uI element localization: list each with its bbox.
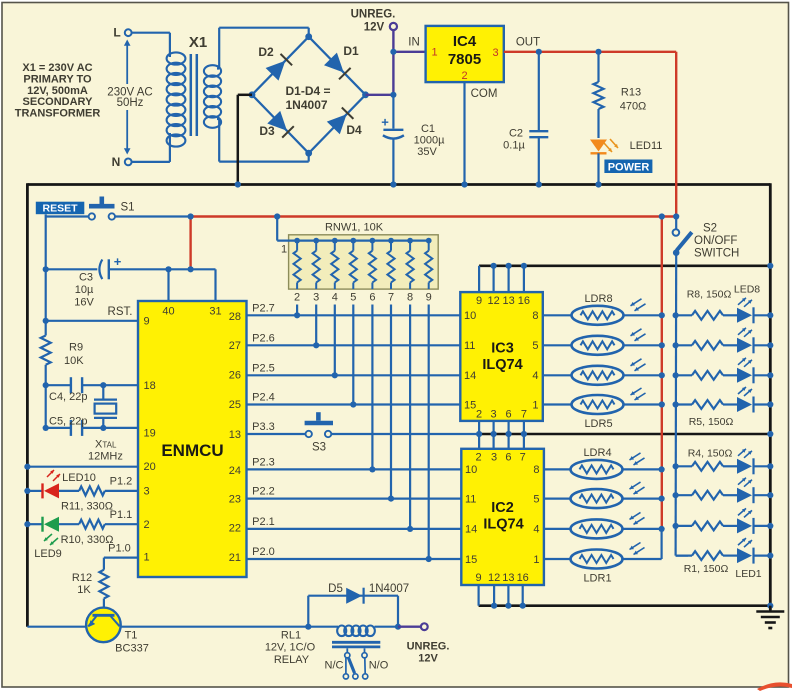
transistor T1 BC337 (103, 599, 105, 608)
S2 output rail down (674, 253, 677, 556)
svg-text:+: + (114, 254, 122, 269)
crystal XTAL 12MHz (102, 385, 104, 399)
RNW1 pin drop wires to ports (296, 305, 298, 316)
svg-text:OUT: OUT (516, 36, 540, 48)
RNW1 pin 1 entry wire (276, 217, 278, 241)
svg-text:50Hz: 50Hz (117, 97, 144, 109)
svg-text:2: 2 (476, 452, 482, 464)
svg-text:R12: R12 (72, 572, 92, 584)
S2 rail bend to R1 row (676, 554, 688, 556)
resistor R12 (99, 570, 108, 599)
svg-text:P2.1: P2.1 (252, 516, 275, 528)
svg-text:P3.3: P3.3 (252, 421, 275, 433)
svg-text:5: 5 (532, 340, 538, 352)
resistor R11 (59, 490, 79, 492)
svg-text:C3: C3 (79, 272, 93, 284)
LDR7 (543, 344, 572, 346)
relay contacts N/C N/O (346, 648, 348, 652)
svg-text:P2.4: P2.4 (252, 392, 275, 404)
svg-text:1000µ: 1000µ (414, 135, 445, 147)
svg-text:P1.0: P1.0 (108, 543, 131, 555)
svg-text:8: 8 (532, 310, 538, 322)
transformer X1 core (190, 54, 193, 136)
svg-text:LDR1: LDR1 (583, 573, 611, 585)
svg-text:11: 11 (464, 340, 475, 352)
svg-text:4: 4 (533, 524, 539, 536)
svg-text:6: 6 (506, 408, 512, 420)
LDR4 (544, 468, 571, 470)
ground bus frame left edge (26, 183, 29, 627)
wire P2.5 (247, 374, 461, 376)
svg-text:16: 16 (518, 295, 530, 307)
svg-text:LED8: LED8 (734, 284, 760, 296)
wire S3 to ground line (331, 433, 477, 435)
capacitor C3 (46, 268, 98, 270)
svg-text:R5, 150Ω: R5, 150Ω (689, 416, 734, 428)
svg-text:13: 13 (502, 295, 514, 307)
svg-text:12V, 1C/O: 12V, 1C/O (265, 642, 316, 654)
red 5V rail down right side (661, 217, 663, 530)
wire L to primary (132, 32, 170, 34)
capacitor C2 (536, 49, 542, 55)
mid ground line S3 to frame (477, 433, 770, 436)
svg-text:5: 5 (350, 292, 356, 304)
diode D5 (307, 596, 309, 627)
svg-text:IC4: IC4 (453, 33, 477, 50)
wire frame to T1 emitter (27, 626, 86, 628)
resistor network RNW1 box (289, 235, 439, 289)
svg-text:P2.0: P2.0 (252, 546, 275, 558)
svg-text:IC3: IC3 (491, 341, 514, 357)
svg-text:P2.5: P2.5 (252, 362, 275, 374)
svg-text:RELAY: RELAY (274, 654, 310, 666)
svg-text:L: L (113, 26, 120, 40)
resistor R5 and LED5 row (676, 403, 692, 405)
svg-text:12V, 500mA: 12V, 500mA (27, 85, 88, 97)
svg-text:12: 12 (487, 295, 499, 307)
resistor R7 and LED7 row (676, 344, 692, 346)
svg-text:15: 15 (464, 399, 476, 411)
svg-text:10µ: 10µ (75, 284, 94, 296)
svg-text:1: 1 (431, 47, 437, 59)
wire node down to C1 (392, 95, 394, 129)
svg-text:23: 23 (229, 494, 241, 506)
svg-text:S3: S3 (312, 442, 326, 454)
svg-text:P2.7: P2.7 (252, 302, 275, 314)
svg-text:9: 9 (144, 316, 150, 328)
capacitor C4 (46, 384, 71, 386)
svg-text:9: 9 (426, 292, 432, 304)
svg-text:C2: C2 (509, 128, 523, 140)
transformer X1 secondary winding (204, 65, 221, 77)
IC3 top pin stubs (478, 266, 480, 292)
svg-text:ILQ74: ILQ74 (483, 517, 523, 533)
resistor R8 and LED8 row (676, 314, 692, 316)
resistor R2 and LED2 row (676, 525, 692, 527)
push switch S3 (306, 431, 312, 437)
svg-text:6: 6 (505, 452, 511, 464)
svg-text:R8, 150Ω: R8, 150Ω (687, 288, 732, 300)
microcontroller U1 ENMCU (138, 301, 247, 577)
svg-text:35V: 35V (417, 146, 437, 158)
svg-text:ON/OFF: ON/OFF (694, 235, 737, 247)
svg-text:15: 15 (465, 554, 477, 566)
svg-text:7: 7 (388, 292, 394, 304)
capacitor C5 (45, 385, 47, 428)
svg-text:T1: T1 (125, 630, 138, 642)
svg-text:TRANSFORMER: TRANSFORMER (15, 108, 101, 120)
svg-text:R1, 150Ω: R1, 150Ω (684, 563, 729, 575)
bridge diamond wires (252, 37, 309, 95)
push switch S1 (89, 213, 95, 219)
resistor R9 (41, 336, 51, 365)
svg-text:3: 3 (491, 452, 497, 464)
svg-text:470Ω: 470Ω (620, 101, 647, 113)
wire MCU pin1 P1.0 to R12 (104, 556, 138, 558)
svg-text:24: 24 (229, 465, 241, 477)
svg-text:LDR5: LDR5 (584, 418, 612, 430)
svg-text:XTAL: XTAL (95, 439, 117, 451)
IC3-IC2 interconnect stubs (478, 421, 480, 449)
bridge node dots (305, 33, 312, 40)
IC2 bottom pin stubs (478, 585, 480, 606)
LDR1 (544, 558, 571, 560)
svg-text:LED11: LED11 (630, 140, 663, 152)
wire secondary top to bridge (217, 67, 219, 69)
switch S2 ON/OFF (673, 213, 679, 219)
svg-text:9: 9 (476, 295, 482, 307)
svg-text:7: 7 (521, 408, 527, 420)
svg-text:14: 14 (464, 370, 476, 382)
svg-text:1: 1 (144, 552, 150, 564)
svg-text:20: 20 (144, 461, 156, 473)
wire P2.6 (247, 344, 461, 346)
red wire vcc rail to S2 (191, 215, 677, 217)
svg-text:1: 1 (281, 244, 287, 256)
svg-text:BC337: BC337 (115, 643, 149, 655)
regulator IC4 7805 (426, 26, 504, 82)
svg-text:R9: R9 (69, 342, 83, 354)
svg-text:COM: COM (471, 88, 498, 100)
svg-text:ENMCU: ENMCU (161, 441, 223, 460)
wire N to primary (132, 161, 170, 163)
svg-text:7: 7 (520, 452, 526, 464)
svg-text:3: 3 (144, 486, 150, 498)
svg-text:6: 6 (369, 292, 375, 304)
svg-text:2: 2 (461, 70, 467, 82)
mains span arrow (126, 44, 128, 84)
svg-text:18: 18 (144, 380, 156, 392)
svg-text:C5, 22p: C5, 22p (49, 416, 88, 428)
wire P2.2 (247, 498, 462, 500)
svg-text:3: 3 (492, 47, 498, 59)
svg-text:12: 12 (488, 572, 500, 584)
svg-text:12V: 12V (364, 22, 385, 34)
wire MCU pin 20 to ground frame (27, 466, 138, 468)
svg-text:8: 8 (533, 464, 539, 476)
svg-text:R10, 330Ω: R10, 330Ω (61, 534, 114, 546)
svg-text:22: 22 (229, 523, 241, 535)
svg-text:UNREG.: UNREG. (407, 641, 450, 653)
svg-text:21: 21 (229, 552, 241, 564)
svg-text:12V: 12V (418, 653, 438, 665)
svg-text:13: 13 (229, 429, 241, 441)
svg-text:LDR8: LDR8 (584, 293, 612, 305)
LED9 green (27, 523, 42, 525)
svg-text:LED9: LED9 (34, 548, 62, 560)
label RESET tag (36, 202, 85, 215)
resistor R3 and LED3 row (676, 494, 692, 496)
svg-text:40: 40 (162, 306, 174, 318)
LDR3 (544, 498, 571, 500)
svg-text:X1: X1 (189, 34, 207, 51)
optocoupler IC3 ILQ74 (460, 292, 543, 421)
wire bridge plus to node (purple) (366, 94, 394, 96)
svg-text:X1 = 230V AC: X1 = 230V AC (22, 62, 92, 74)
svg-text:N/C: N/C (325, 659, 344, 671)
svg-text:10: 10 (465, 464, 477, 476)
svg-text:19: 19 (144, 428, 156, 440)
svg-text:C1: C1 (421, 123, 435, 135)
diode D2 (266, 61, 286, 81)
red wire vcc drop to MCU supply (189, 217, 191, 270)
svg-text:P2.3: P2.3 (252, 456, 275, 468)
diode D3 (267, 111, 287, 131)
wire S1 to vcc junction (115, 215, 191, 217)
svg-text:27: 27 (229, 340, 241, 352)
svg-text:D4: D4 (346, 123, 362, 137)
wire T1 collector to relay (121, 626, 309, 628)
svg-text:IN: IN (408, 36, 420, 48)
svg-text:D2: D2 (258, 45, 274, 59)
resistor R4 and LED4 row (676, 465, 692, 467)
diode D4 (327, 114, 347, 134)
svg-text:9: 9 (476, 572, 482, 584)
ground bus frame right edge (769, 183, 772, 610)
LDR8 (543, 314, 572, 316)
svg-text:POWER: POWER (608, 161, 650, 173)
svg-text:N: N (112, 155, 121, 169)
svg-text:C4, 22p: C4, 22p (49, 391, 88, 403)
svg-text:10K: 10K (64, 355, 84, 367)
ground bus frame top edge (27, 183, 770, 186)
wire secondary bottom to bridge (217, 118, 219, 120)
RNW1 resistors (294, 238, 300, 244)
svg-text:1: 1 (533, 554, 539, 566)
wire node to IC4 IN (purple) (393, 51, 425, 53)
svg-text:1N4007: 1N4007 (369, 583, 409, 595)
svg-text:P2.2: P2.2 (252, 486, 275, 498)
svg-text:IC2: IC2 (491, 500, 514, 516)
svg-text:26: 26 (229, 370, 241, 382)
svg-text:14: 14 (465, 524, 477, 536)
svg-text:R4, 150Ω: R4, 150Ω (688, 447, 733, 459)
wire P2.1 (247, 528, 462, 530)
wire P3.3 to S3 (247, 433, 306, 435)
red wire IC4 OUT rail (504, 51, 676, 53)
resistor R6 and LED6 row (676, 374, 692, 376)
svg-text:12MHz: 12MHz (88, 451, 123, 463)
svg-text:5: 5 (533, 493, 539, 505)
wire P2.0 (247, 558, 462, 560)
relay RL1 coil (308, 626, 338, 628)
svg-text:10: 10 (464, 310, 476, 322)
svg-text:31: 31 (209, 306, 221, 318)
wire LDR1 riser to red rail end (660, 529, 662, 559)
svg-text:LDR4: LDR4 (583, 447, 611, 459)
svg-text:28: 28 (229, 311, 241, 323)
wire RST row (45, 269, 47, 335)
svg-text:25: 25 (229, 399, 241, 411)
svg-text:LED1: LED1 (735, 568, 761, 580)
svg-text:2: 2 (144, 519, 150, 531)
svg-text:16: 16 (517, 572, 529, 584)
svg-text:4: 4 (332, 292, 338, 304)
wire P2.4 (247, 403, 461, 405)
svg-text:1K: 1K (77, 584, 91, 596)
RNW1 common rail (297, 240, 431, 242)
svg-text:D3: D3 (259, 124, 275, 138)
svg-text:11: 11 (465, 493, 476, 505)
svg-text:PRIMARY TO: PRIMARY TO (23, 73, 92, 85)
wire P2.3 (247, 468, 462, 470)
svg-text:RST.: RST. (108, 306, 133, 318)
svg-text:+: + (381, 115, 389, 130)
decorative red swoosh (757, 682, 792, 691)
LDR6 (543, 374, 572, 376)
resistor R13 (595, 49, 601, 55)
svg-text:S1: S1 (120, 202, 134, 214)
junction dot bridge negative on ground bus (235, 181, 241, 187)
svg-text:2: 2 (294, 292, 300, 304)
svg-text:P2.6: P2.6 (252, 332, 275, 344)
wire IC4 COM to ground bus (463, 82, 465, 184)
svg-text:S2: S2 (703, 223, 717, 235)
IC2 emitter ground line (479, 604, 771, 607)
svg-text:1N4007: 1N4007 (286, 98, 328, 112)
svg-text:RNW1, 10K: RNW1, 10K (325, 222, 384, 234)
wire supply row to MCU pins 40 31 (167, 269, 169, 301)
svg-text:3: 3 (313, 292, 319, 304)
svg-text:16V: 16V (74, 297, 94, 309)
wire reset rail down left column (45, 214, 47, 269)
ground symbol (769, 606, 772, 612)
svg-text:N/O: N/O (369, 659, 389, 671)
svg-text:D5: D5 (328, 583, 343, 595)
label POWER tag (604, 160, 652, 174)
svg-text:P1.1: P1.1 (110, 509, 133, 521)
LDR2 (544, 528, 571, 530)
LED10 red (27, 490, 42, 492)
svg-text:0.1µ: 0.1µ (503, 140, 525, 152)
junction dots on unreg node (390, 49, 396, 55)
svg-text:R11, 330Ω: R11, 330Ω (61, 501, 113, 513)
black wire bridge negative to ground bus (238, 94, 252, 97)
svg-text:SWITCH: SWITCH (694, 248, 739, 260)
resistor R10 (59, 523, 79, 525)
svg-text:1: 1 (532, 399, 538, 411)
svg-text:R13: R13 (621, 87, 641, 99)
wire reset to S1 (46, 215, 89, 217)
optocoupler IC2 ILQ74 (461, 449, 544, 585)
junction dot C1 on ground bus (390, 181, 396, 187)
svg-text:RL1: RL1 (281, 630, 301, 642)
svg-text:3: 3 (491, 408, 497, 420)
resistor R1 and LED1 row (676, 554, 692, 556)
svg-text:UNREG.: UNREG. (351, 9, 396, 21)
svg-text:D1: D1 (343, 44, 359, 58)
svg-text:4: 4 (532, 370, 538, 382)
LDR5 (543, 403, 572, 405)
LED11 power indicator (590, 140, 607, 152)
svg-text:RESET: RESET (42, 203, 78, 215)
svg-text:LED10: LED10 (62, 472, 96, 484)
IC3 emitter ground line (479, 264, 770, 267)
svg-text:13: 13 (502, 572, 514, 584)
svg-text:SECONDARY: SECONDARY (23, 96, 94, 108)
svg-text:7805: 7805 (448, 51, 481, 68)
svg-text:D1-D4 =: D1-D4 = (286, 84, 331, 98)
diode D1 (324, 53, 344, 73)
terminal UNREG 12V bottom (398, 626, 421, 628)
wire P2.7 (247, 314, 461, 316)
svg-text:P1.2: P1.2 (110, 476, 133, 488)
svg-text:2: 2 (476, 408, 482, 420)
transformer X1 primary winding (167, 52, 186, 64)
svg-text:ILQ74: ILQ74 (482, 357, 522, 373)
svg-text:8: 8 (407, 292, 413, 304)
